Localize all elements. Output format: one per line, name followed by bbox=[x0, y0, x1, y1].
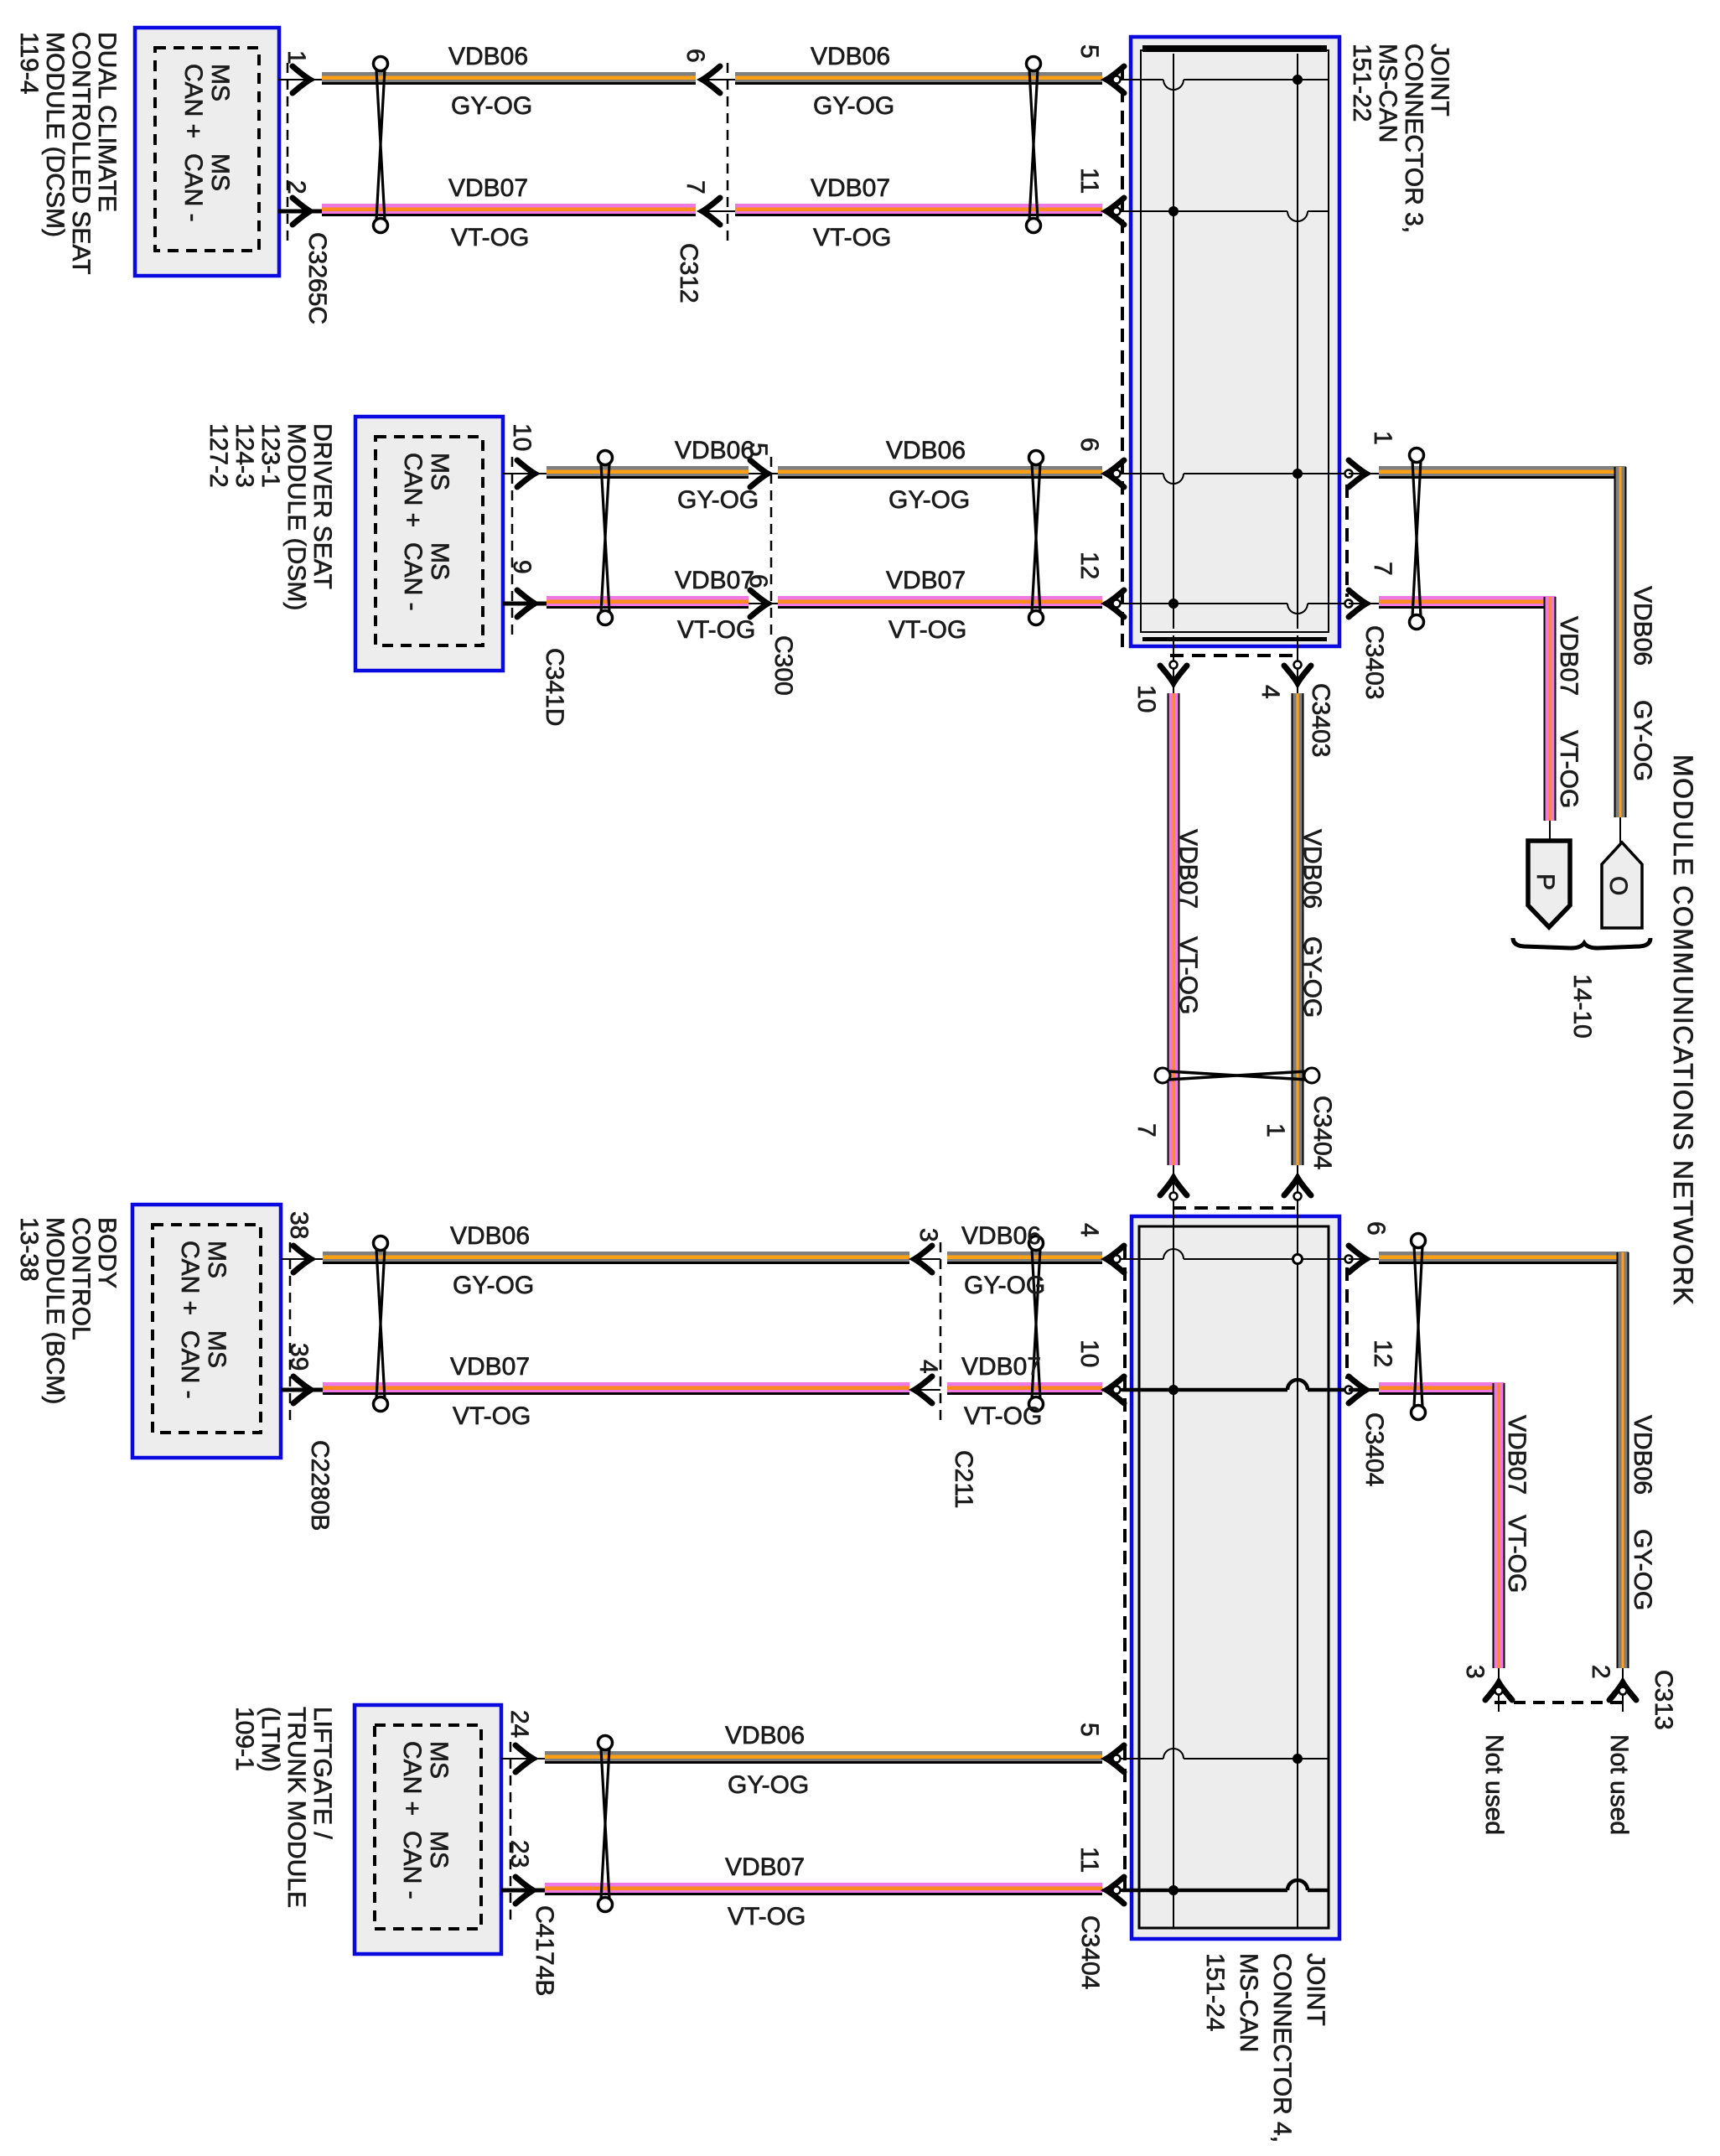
svg-text:CAN -: CAN - bbox=[176, 1330, 204, 1399]
svg-text:VDB06: VDB06 bbox=[675, 437, 754, 464]
svg-text:GY-OG: GY-OG bbox=[964, 1272, 1045, 1299]
svg-text:GY-OG: GY-OG bbox=[888, 486, 970, 514]
svg-text:1: 1 bbox=[1369, 431, 1396, 445]
svg-text:VDB07: VDB07 bbox=[448, 174, 528, 202]
svg-text:2: 2 bbox=[282, 180, 310, 194]
svg-text:VDB06: VDB06 bbox=[1629, 586, 1656, 666]
svg-text:MODULE COMMUNICATIONS NETWORK: MODULE COMMUNICATIONS NETWORK bbox=[1668, 754, 1698, 1306]
svg-text:C3404: C3404 bbox=[1360, 1412, 1388, 1486]
svg-text:GY-OG: GY-OG bbox=[451, 92, 532, 120]
svg-text:4: 4 bbox=[1075, 1223, 1103, 1237]
svg-text:1: 1 bbox=[282, 50, 310, 65]
svg-text:39: 39 bbox=[285, 1343, 313, 1371]
svg-text:VT-OG: VT-OG bbox=[888, 616, 966, 644]
svg-text:C300: C300 bbox=[769, 635, 797, 696]
svg-text:VT-OG: VT-OG bbox=[964, 1402, 1042, 1430]
svg-text:DRIVER SEAT: DRIVER SEAT bbox=[308, 423, 336, 589]
svg-text:24: 24 bbox=[505, 1710, 533, 1738]
svg-text:124-3: 124-3 bbox=[231, 423, 258, 488]
svg-text:MS: MS bbox=[425, 1831, 453, 1868]
svg-text:C3404: C3404 bbox=[1076, 1915, 1104, 1989]
svg-text:MS: MS bbox=[203, 1330, 231, 1368]
svg-text:23: 23 bbox=[505, 1840, 533, 1868]
svg-text:10: 10 bbox=[1132, 685, 1160, 713]
svg-text:C313: C313 bbox=[1650, 1670, 1677, 1730]
svg-text:VT-OG: VT-OG bbox=[1174, 936, 1202, 1014]
svg-text:LIFTGATE /: LIFTGATE / bbox=[308, 1707, 336, 1839]
svg-text:12: 12 bbox=[1369, 1340, 1396, 1367]
svg-text:VDB06: VDB06 bbox=[961, 1222, 1041, 1250]
svg-text:151-22: 151-22 bbox=[1348, 44, 1375, 122]
svg-text:109-1: 109-1 bbox=[231, 1707, 258, 1771]
svg-text:VDB07: VDB07 bbox=[886, 567, 966, 594]
svg-text:GY-OG: GY-OG bbox=[1629, 700, 1656, 781]
svg-text:CAN -: CAN - bbox=[179, 153, 207, 222]
svg-text:BODY: BODY bbox=[93, 1217, 121, 1288]
svg-text:1: 1 bbox=[1262, 1123, 1289, 1138]
svg-text:VDB06: VDB06 bbox=[886, 437, 966, 464]
svg-text:JOINT: JOINT bbox=[1426, 44, 1453, 117]
svg-text:CAN +: CAN + bbox=[398, 1741, 426, 1816]
svg-text:3: 3 bbox=[1461, 1665, 1489, 1679]
svg-text:6: 6 bbox=[1362, 1221, 1390, 1236]
svg-text:VDB07: VDB07 bbox=[961, 1353, 1041, 1381]
svg-text:10: 10 bbox=[1075, 1340, 1103, 1367]
svg-text:GY-OG: GY-OG bbox=[1298, 936, 1326, 1018]
svg-text:C341D: C341D bbox=[541, 648, 568, 726]
svg-text:6: 6 bbox=[681, 49, 709, 63]
svg-text:CAN +: CAN + bbox=[399, 453, 427, 527]
svg-text:123-1: 123-1 bbox=[256, 423, 284, 488]
svg-text:CAN -: CAN - bbox=[399, 542, 427, 611]
svg-text:13-38: 13-38 bbox=[15, 1217, 43, 1282]
svg-text:C3403: C3403 bbox=[1360, 625, 1388, 699]
svg-text:P: P bbox=[1531, 873, 1559, 890]
svg-text:11: 11 bbox=[1075, 1847, 1103, 1873]
svg-text:TRUNK MODULE: TRUNK MODULE bbox=[282, 1707, 310, 1908]
svg-text:MS: MS bbox=[426, 453, 453, 490]
svg-text:5: 5 bbox=[1075, 1723, 1103, 1737]
svg-text:VT-OG: VT-OG bbox=[813, 224, 891, 251]
svg-text:VDB06: VDB06 bbox=[1629, 1415, 1656, 1495]
svg-text:MODULE (BCM): MODULE (BCM) bbox=[41, 1217, 69, 1404]
svg-text:MS: MS bbox=[426, 542, 453, 580]
svg-text:VDB07: VDB07 bbox=[1174, 829, 1202, 909]
svg-text:VDB07: VDB07 bbox=[450, 1353, 530, 1381]
svg-text:GY-OG: GY-OG bbox=[1629, 1529, 1656, 1610]
svg-text:CONNECTOR 4,: CONNECTOR 4, bbox=[1268, 1953, 1296, 2143]
svg-text:VDB06: VDB06 bbox=[811, 43, 890, 70]
svg-text:CONNECTOR 3,: CONNECTOR 3, bbox=[1400, 44, 1427, 233]
svg-text:C2280B: C2280B bbox=[306, 1440, 334, 1531]
svg-text:6: 6 bbox=[1075, 438, 1103, 452]
svg-text:151-24: 151-24 bbox=[1201, 1953, 1229, 2031]
svg-text:JOINT: JOINT bbox=[1302, 1953, 1329, 2026]
svg-text:GY-OG: GY-OG bbox=[453, 1272, 534, 1299]
svg-text:VT-OG: VT-OG bbox=[453, 1402, 531, 1430]
svg-text:Not used: Not used bbox=[1605, 1734, 1633, 1835]
svg-text:5: 5 bbox=[1075, 44, 1103, 59]
svg-text:O: O bbox=[1604, 876, 1632, 895]
svg-text:12: 12 bbox=[1075, 552, 1103, 579]
svg-text:Not used: Not used bbox=[1480, 1734, 1508, 1835]
svg-text:VT-OG: VT-OG bbox=[677, 616, 755, 644]
svg-text:CAN -: CAN - bbox=[398, 1831, 426, 1899]
svg-text:MS: MS bbox=[203, 1241, 231, 1278]
svg-text:VDB06: VDB06 bbox=[725, 1722, 805, 1749]
svg-text:VDB07: VDB07 bbox=[675, 567, 754, 594]
svg-text:14-10: 14-10 bbox=[1568, 974, 1596, 1039]
svg-text:DUAL CLIMATE: DUAL CLIMATE bbox=[93, 32, 121, 212]
svg-text:C3403: C3403 bbox=[1307, 683, 1334, 757]
svg-text:11: 11 bbox=[1075, 168, 1103, 194]
svg-text:C211: C211 bbox=[950, 1450, 977, 1509]
svg-text:4: 4 bbox=[1256, 685, 1284, 699]
svg-text:C4174B: C4174B bbox=[531, 1905, 558, 1996]
svg-text:VDB07: VDB07 bbox=[811, 174, 890, 202]
svg-text:GY-OG: GY-OG bbox=[677, 486, 759, 514]
svg-text:VT-OG: VT-OG bbox=[1503, 1515, 1531, 1593]
svg-text:7: 7 bbox=[1132, 1123, 1160, 1138]
svg-text:VDB06: VDB06 bbox=[450, 1222, 530, 1250]
svg-text:2: 2 bbox=[1587, 1665, 1614, 1679]
svg-text:MODULE (DCSM): MODULE (DCSM) bbox=[41, 32, 69, 237]
svg-text:VDB07: VDB07 bbox=[1555, 616, 1583, 696]
svg-text:119-4: 119-4 bbox=[15, 32, 43, 95]
svg-text:MS: MS bbox=[425, 1741, 453, 1779]
svg-text:C312: C312 bbox=[675, 243, 702, 303]
svg-text:127-2: 127-2 bbox=[205, 423, 232, 488]
svg-text:7: 7 bbox=[1369, 562, 1396, 576]
svg-text:VDB06: VDB06 bbox=[448, 43, 528, 70]
svg-text:VT-OG: VT-OG bbox=[451, 224, 529, 251]
svg-text:4: 4 bbox=[914, 1360, 942, 1374]
svg-text:C3265C: C3265C bbox=[303, 232, 331, 324]
svg-text:10: 10 bbox=[508, 423, 536, 451]
svg-text:MS-CAN: MS-CAN bbox=[1374, 44, 1401, 143]
svg-text:VDB06: VDB06 bbox=[1298, 829, 1326, 909]
svg-text:9: 9 bbox=[508, 560, 536, 574]
svg-text:VDB07: VDB07 bbox=[725, 1853, 805, 1881]
svg-text:(LTM): (LTM) bbox=[256, 1707, 284, 1772]
svg-text:3: 3 bbox=[914, 1228, 942, 1242]
svg-text:GY-OG: GY-OG bbox=[813, 92, 894, 120]
svg-text:38: 38 bbox=[285, 1211, 313, 1239]
svg-text:CONTROL: CONTROL bbox=[67, 1217, 95, 1340]
svg-text:VDB07: VDB07 bbox=[1503, 1415, 1531, 1495]
svg-text:MS: MS bbox=[206, 153, 234, 191]
svg-text:7: 7 bbox=[681, 180, 709, 194]
svg-text:CONTROLLED SEAT: CONTROLLED SEAT bbox=[67, 32, 95, 275]
svg-text:MS: MS bbox=[206, 64, 234, 101]
svg-text:VT-OG: VT-OG bbox=[1555, 730, 1583, 808]
svg-text:C3404: C3404 bbox=[1308, 1096, 1336, 1169]
svg-text:CAN +: CAN + bbox=[176, 1241, 204, 1315]
svg-text:GY-OG: GY-OG bbox=[728, 1771, 809, 1799]
svg-text:CAN +: CAN + bbox=[179, 64, 207, 138]
svg-text:MODULE (DSM): MODULE (DSM) bbox=[282, 423, 310, 610]
svg-text:VT-OG: VT-OG bbox=[728, 1903, 806, 1931]
svg-text:MS-CAN: MS-CAN bbox=[1235, 1953, 1262, 2052]
